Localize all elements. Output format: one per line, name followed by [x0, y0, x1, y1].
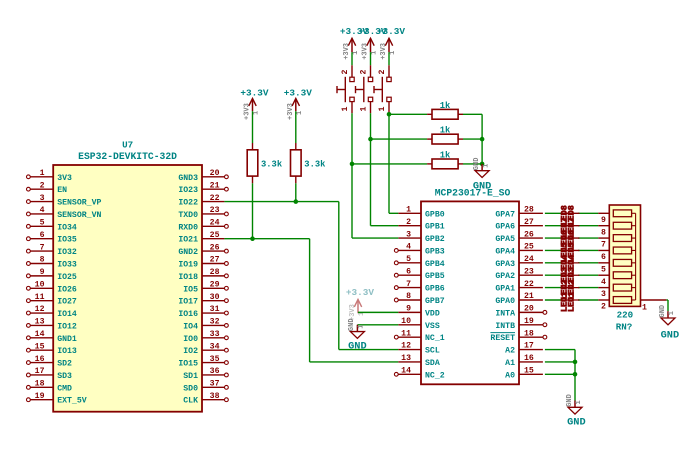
svg-text:+3.3V: +3.3V — [377, 26, 406, 37]
U7 pin 17 (SD3) — [27, 367, 73, 381]
svg-text:GND: GND — [661, 330, 680, 342]
U? pin 15 (A0) — [505, 367, 543, 381]
U7 pin 27 (IO19) — [178, 256, 228, 270]
wire +3.3V to resistor R? 3.3k A — [252, 111, 254, 143]
svg-text:GPA2: GPA2 — [495, 272, 515, 281]
svg-text:A1: A1 — [505, 359, 515, 368]
wire to GPB0 (horiz) — [389, 212, 398, 214]
svg-text:IO12: IO12 — [57, 322, 77, 331]
wire IO22 to SCL (horiz to U? pin12) — [339, 349, 399, 351]
svg-text:5: 5 — [40, 219, 45, 228]
svg-text:IO4: IO4 — [183, 322, 198, 331]
U? pin 8 (GPB7) — [394, 292, 444, 306]
RN? pin 2 — [598, 300, 609, 312]
IC U7 ESP32-DEVKITC-32D body — [53, 165, 202, 412]
RN? pin 9 — [598, 213, 609, 225]
ground at RN? — [659, 305, 679, 342]
svg-text:GND2: GND2 — [178, 248, 198, 257]
svg-text:IO5: IO5 — [183, 285, 198, 294]
svg-text:13: 13 — [35, 318, 45, 327]
U? pin 10 (VSS) — [398, 317, 440, 331]
wire A2/A1/A0 down — [574, 350, 576, 401]
U? pin 20 (INTA) — [495, 305, 546, 319]
U7 pin 38 (CLK) — [183, 392, 228, 406]
svg-text:RN?: RN? — [616, 321, 633, 332]
svg-text:NC_2: NC_2 — [425, 371, 445, 380]
U7 pin 32 (IO4) — [183, 318, 228, 332]
svg-text:GPB4: GPB4 — [425, 260, 445, 269]
svg-text:+3.3V: +3.3V — [240, 88, 269, 99]
reference U7 — [122, 140, 133, 151]
U7 pin 22 (IO22) — [178, 194, 224, 208]
svg-text:+3.3V: +3.3V — [346, 287, 375, 298]
junction at R? 3.3k A bottom — [250, 236, 255, 241]
svg-text:GPA7: GPA7 — [495, 210, 515, 219]
svg-text:EXT_5V: EXT_5V — [57, 397, 87, 406]
svg-text:9: 9 — [406, 305, 411, 314]
U7 pin 3 (SENSOR_VP) — [27, 194, 102, 208]
svg-text:+3V3: +3V3 — [287, 103, 295, 120]
svg-text:19: 19 — [35, 392, 45, 401]
value MCP23017-E_SO — [435, 187, 511, 198]
LEDs D1-D8 (overlapping symbols) — [559, 205, 579, 312]
svg-text:32: 32 — [210, 318, 220, 327]
U7 pin 1 (3V3) — [27, 169, 73, 183]
svg-text:1: 1 — [358, 325, 366, 329]
svg-text:15: 15 — [524, 367, 534, 376]
wire SW3 to R 1k row1 — [388, 113, 390, 114]
svg-text:14: 14 — [35, 330, 45, 339]
svg-text:IO15: IO15 — [178, 360, 198, 369]
svg-text:6: 6 — [40, 231, 45, 240]
svg-text:RESET: RESET — [490, 334, 515, 343]
svg-text:10: 10 — [35, 280, 45, 289]
junction SW1/R3 — [350, 162, 355, 167]
svg-text:1: 1 — [482, 164, 490, 168]
wire IO22 to SCL (horiz from U7 pin22) — [224, 201, 338, 203]
svg-text:+3.3V: +3.3V — [284, 88, 313, 99]
svg-text:9: 9 — [601, 216, 606, 225]
U7 pin 16 (SD2) — [27, 355, 73, 369]
svg-text:SD2: SD2 — [57, 360, 72, 369]
svg-text:IO22: IO22 — [178, 199, 198, 208]
U? pin 16 (A1) — [505, 354, 543, 368]
svg-text:3: 3 — [406, 230, 411, 239]
svg-text:IO13: IO13 — [57, 347, 77, 356]
svg-text:21: 21 — [524, 292, 534, 301]
wire to R? 1k top — [389, 113, 427, 115]
U7 pin 2 (EN) — [27, 181, 68, 195]
IC U? MCP23017 body — [421, 201, 519, 384]
wire IO21 to SDA (horiz from U7 pin25) — [224, 238, 309, 240]
junction 1k bus row3 — [480, 162, 485, 167]
svg-text:1: 1 — [352, 51, 360, 55]
RN? pin 5 — [598, 263, 609, 275]
svg-text:GND: GND — [659, 305, 667, 318]
U7 pin 18 (CMD) — [27, 380, 73, 394]
svg-text:IO16: IO16 — [178, 310, 198, 319]
svg-text:2: 2 — [360, 70, 369, 75]
wire R2 row to GPB1 (vert) — [370, 139, 372, 226]
U7 pin 6 (IO35) — [27, 231, 77, 245]
svg-text:GND1: GND1 — [57, 335, 77, 344]
svg-text:U7: U7 — [122, 140, 133, 151]
svg-text:1k: 1k — [440, 126, 451, 136]
svg-text:IO33: IO33 — [57, 260, 77, 269]
svg-text:A0: A0 — [505, 371, 515, 380]
U7 pin 19 (EXT_5V) — [27, 392, 87, 406]
svg-text:+3V3: +3V3 — [380, 43, 388, 60]
U7 pin 11 (IO27) — [27, 293, 77, 307]
svg-text:6: 6 — [601, 253, 606, 262]
svg-text:4: 4 — [406, 243, 411, 252]
svg-text:1: 1 — [296, 111, 304, 115]
U7 pin 36 (SD1) — [183, 367, 228, 381]
RN? pin 3 — [598, 288, 609, 300]
wire A2 — [545, 349, 575, 351]
svg-text:7: 7 — [601, 241, 606, 250]
svg-text:IO18: IO18 — [178, 273, 198, 282]
U7 pin 21 (IO23) — [178, 181, 228, 195]
resistor network RN? body — [609, 205, 640, 306]
wire GPA4 to LED — [545, 249, 562, 251]
U? pin 27 (GPA6) — [495, 218, 543, 232]
svg-text:27: 27 — [210, 256, 220, 265]
svg-text:26: 26 — [210, 243, 220, 252]
U? pin 11 (NC_1) — [394, 329, 444, 343]
junction 1k bus row2 — [480, 137, 485, 142]
U7 pin 23 (TXD0) — [178, 206, 228, 220]
RN? pin 8 — [598, 226, 609, 238]
wire 1k bus down — [481, 114, 483, 164]
junction A1 — [573, 360, 578, 365]
U7 pin 8 (IO33) — [27, 256, 77, 270]
svg-text:8: 8 — [601, 228, 606, 237]
wire IO21 to SDA (vert) — [309, 239, 311, 362]
U7 pin 9 (IO25) — [27, 268, 77, 282]
U7 pin 34 (IO2) — [183, 342, 228, 356]
wire GPA0 to LED — [545, 299, 562, 301]
ground below A0 — [566, 394, 586, 429]
svg-text:1: 1 — [341, 107, 350, 112]
svg-text:38: 38 — [210, 392, 220, 401]
svg-text:30: 30 — [210, 293, 220, 302]
svg-text:1k: 1k — [440, 150, 451, 160]
svg-text:GND: GND — [348, 340, 367, 352]
RN? pin 6 — [598, 250, 609, 262]
svg-text:GND: GND — [566, 394, 574, 407]
junction SW3/R1 — [387, 112, 392, 117]
svg-text:21: 21 — [210, 181, 220, 190]
svg-text:1: 1 — [575, 400, 583, 404]
svg-text:SD1: SD1 — [183, 372, 198, 381]
svg-text:VDD: VDD — [425, 309, 440, 318]
svg-text:VSS: VSS — [425, 322, 440, 331]
U? pin 7 (GPB6) — [394, 280, 444, 294]
svg-text:SENSOR_VP: SENSOR_VP — [57, 199, 101, 208]
svg-text:1: 1 — [378, 107, 387, 112]
svg-text:3: 3 — [40, 194, 45, 203]
svg-text:GPA0: GPA0 — [495, 297, 515, 306]
svg-text:18: 18 — [35, 380, 45, 389]
svg-text:GPA4: GPA4 — [495, 247, 515, 256]
U7 pin 35 (IO15) — [178, 355, 228, 369]
U7 pin 24 (RXD0) — [178, 219, 228, 233]
svg-text:IO25: IO25 — [57, 273, 77, 282]
U7 pin 29 (IO5) — [183, 280, 228, 294]
U7 pin 33 (IO0) — [183, 330, 228, 344]
svg-text:IO34: IO34 — [57, 223, 77, 232]
svg-text:SENSOR_VN: SENSOR_VN — [57, 211, 101, 220]
wire R? 3.3k B to net — [295, 183, 297, 201]
svg-text:13: 13 — [401, 354, 411, 363]
svg-text:IO26: IO26 — [57, 285, 77, 294]
resistor R? 3.3k B — [291, 143, 327, 183]
push button SW2 — [356, 65, 373, 113]
svg-text:28: 28 — [210, 268, 220, 277]
U? pin 25 (GPA4) — [495, 243, 543, 257]
wire R? 1k middle right — [463, 138, 482, 140]
svg-text:CMD: CMD — [57, 384, 72, 393]
wire SW1 down — [351, 113, 353, 164]
svg-text:16: 16 — [35, 355, 45, 364]
wire LED to RN pin 8 — [578, 225, 598, 227]
value 220 — [617, 310, 634, 321]
wire GPA6 to LED — [545, 225, 562, 227]
U7 pin 31 (IO16) — [178, 305, 228, 319]
power +3.3V above R? 3.3k A — [240, 88, 269, 121]
svg-text:15: 15 — [35, 342, 45, 351]
wire A0 — [545, 373, 575, 375]
U? pin 14 (NC_2) — [394, 367, 444, 381]
resistor R? 3.3k A — [247, 143, 283, 183]
wire GPA7 to LED — [545, 212, 562, 214]
svg-text:IO17: IO17 — [178, 298, 198, 307]
U7 pin 10 (IO26) — [27, 280, 77, 294]
wire to GPB1 (horiz) — [371, 225, 399, 227]
svg-text:1: 1 — [406, 206, 411, 215]
wire A1 — [545, 361, 575, 363]
svg-text:NC_1: NC_1 — [425, 334, 445, 343]
U? pin 6 (GPB5) — [394, 267, 444, 281]
wire GPA2 to LED — [545, 274, 562, 276]
svg-text:2: 2 — [40, 181, 45, 190]
svg-text:IO23: IO23 — [178, 186, 198, 195]
svg-text:IO35: IO35 — [57, 236, 77, 245]
U? pin 23 (GPA2) — [495, 267, 543, 281]
U? pin 13 (SDA) — [398, 354, 440, 368]
svg-text:SD3: SD3 — [57, 372, 72, 381]
U? pin 12 (SCL) — [398, 342, 440, 356]
wire R? 1k bottom right — [463, 163, 482, 165]
ground below 1k bus — [473, 158, 492, 193]
svg-text:+3V3: +3V3 — [343, 43, 351, 60]
svg-text:34: 34 — [210, 342, 220, 351]
svg-text:5: 5 — [601, 265, 606, 274]
svg-text:RXD0: RXD0 — [178, 223, 198, 232]
wire LED to RN pin 5 — [578, 262, 598, 264]
svg-text:35: 35 — [210, 355, 220, 364]
svg-text:2: 2 — [341, 70, 350, 75]
svg-text:3V3: 3V3 — [57, 174, 72, 183]
power +3.3V above SW3 — [377, 26, 406, 60]
U? pin 21 (GPA0) — [495, 292, 543, 306]
svg-text:1: 1 — [668, 311, 676, 315]
U? pin 4 (GPB3) — [394, 243, 444, 257]
svg-text:2: 2 — [601, 303, 606, 312]
svg-text:INTA: INTA — [495, 309, 515, 318]
wire IO21 to SDA (horiz to U? pin13) — [310, 361, 399, 363]
svg-text:GPB6: GPB6 — [425, 285, 445, 294]
U7 pin 26 (GND2) — [178, 243, 228, 257]
svg-text:IO19: IO19 — [178, 260, 198, 269]
svg-text:12: 12 — [35, 305, 45, 314]
svg-text:18: 18 — [524, 329, 534, 338]
svg-text:14: 14 — [401, 367, 411, 376]
svg-text:SCL: SCL — [425, 347, 440, 356]
svg-text:3: 3 — [601, 290, 606, 299]
svg-text:17: 17 — [35, 367, 45, 376]
U7 pin 28 (IO18) — [178, 268, 228, 282]
svg-text:27: 27 — [524, 218, 534, 227]
svg-text:CLK: CLK — [183, 397, 198, 406]
svg-text:8: 8 — [40, 256, 45, 265]
U7 pin 14 (GND1) — [27, 330, 77, 344]
svg-text:29: 29 — [210, 280, 220, 289]
svg-text:1: 1 — [360, 107, 369, 112]
svg-text:1: 1 — [371, 51, 379, 55]
wire to GPB2 (horiz) — [352, 237, 398, 239]
U? pin 22 (GPA1) — [495, 280, 543, 294]
svg-text:IO2: IO2 — [183, 347, 198, 356]
wire R3 row to GPB2 (vert) — [351, 164, 353, 238]
svg-text:26: 26 — [524, 230, 534, 239]
svg-text:IO32: IO32 — [57, 248, 77, 257]
svg-text:IO27: IO27 — [57, 298, 77, 307]
svg-text:20: 20 — [524, 305, 534, 314]
svg-text:8: 8 — [406, 292, 411, 301]
svg-text:16: 16 — [524, 354, 534, 363]
wire R? 3.3k A to net — [252, 183, 254, 238]
wire SW2 down — [370, 113, 372, 139]
svg-text:19: 19 — [524, 317, 534, 326]
svg-text:GPB7: GPB7 — [425, 297, 445, 306]
svg-text:LED1: LED1 — [566, 292, 576, 312]
U? pin 24 (GPA3) — [495, 255, 543, 269]
svg-text:22: 22 — [524, 280, 534, 289]
wire LED to RN pin 3 — [578, 287, 598, 289]
svg-text:3.3k: 3.3k — [261, 160, 283, 170]
svg-text:3.3k: 3.3k — [304, 160, 326, 170]
junction SW2/R2 — [368, 137, 373, 142]
power +3.3V at VDD (pale) — [346, 287, 375, 321]
svg-text:+3V3: +3V3 — [244, 103, 252, 120]
svg-text:1k: 1k — [440, 101, 451, 111]
svg-text:GPA5: GPA5 — [495, 235, 515, 244]
wire IO22 to SCL (vert) — [338, 202, 340, 350]
U7 pin 25 (IO21) — [178, 231, 224, 245]
resistor R? 1k middle — [427, 126, 463, 144]
svg-text:25: 25 — [210, 231, 220, 240]
svg-text:12: 12 — [401, 342, 411, 351]
svg-text:GPB2: GPB2 — [425, 235, 445, 244]
svg-text:20: 20 — [210, 169, 220, 178]
U? pin 26 (GPA5) — [495, 230, 543, 244]
svg-text:11: 11 — [401, 329, 411, 338]
wire GPA1 to LED — [545, 287, 562, 289]
svg-text:4: 4 — [601, 278, 606, 287]
resistor R? 1k bottom — [427, 150, 463, 168]
wire to R? 1k bottom — [352, 163, 427, 165]
wire +3.3V to SW3 — [388, 52, 390, 65]
RN? pin 7 — [598, 238, 609, 250]
U7 pin 30 (IO17) — [178, 293, 228, 307]
RN? pin 1 — [641, 300, 667, 313]
U? pin 28 (GPA7) — [495, 206, 543, 220]
svg-text:IO0: IO0 — [183, 335, 198, 344]
wire +3.3V to SW1 — [351, 52, 353, 65]
svg-text:17: 17 — [524, 342, 534, 351]
svg-text:A2: A2 — [505, 347, 515, 356]
U7 pin 20 (GND3) — [178, 169, 228, 183]
svg-text:ESP32-DEVKITC-32D: ESP32-DEVKITC-32D — [78, 151, 177, 162]
wire R? 1k top right — [463, 113, 482, 115]
svg-text:GND3: GND3 — [178, 174, 198, 183]
svg-text:9: 9 — [40, 268, 45, 277]
wire LED to RN pin 7 — [578, 237, 598, 239]
push button SW3 — [374, 65, 391, 113]
svg-text:1: 1 — [642, 304, 647, 313]
svg-text:GND: GND — [473, 180, 492, 192]
U7 pin 7 (IO32) — [27, 243, 77, 257]
wire LED to RN pin 6 — [578, 249, 598, 251]
svg-text:GND: GND — [567, 417, 586, 429]
svg-text:1: 1 — [40, 169, 45, 178]
svg-text:GPB0: GPB0 — [425, 210, 445, 219]
wire +3.3V to resistor R? 3.3k B — [295, 111, 297, 143]
svg-text:10: 10 — [401, 317, 411, 326]
svg-text:220: 220 — [617, 310, 634, 321]
wire VDD — [358, 311, 398, 313]
svg-text:+3V3: +3V3 — [362, 43, 370, 60]
svg-text:33: 33 — [210, 330, 220, 339]
wire LED to RN pin 4 — [578, 274, 598, 276]
power +3.3V above R? 3.3k B — [284, 88, 313, 121]
U? pin 5 (GPB4) — [394, 255, 444, 269]
svg-text:GPA3: GPA3 — [495, 260, 515, 269]
svg-text:1: 1 — [389, 51, 397, 55]
power +3.3V above SW2 — [358, 26, 387, 60]
svg-text:GPB3: GPB3 — [425, 247, 445, 256]
svg-text:11: 11 — [35, 293, 45, 302]
U7 pin 4 (SENSOR_VN) — [27, 206, 102, 220]
wire +3.3V to SW2 — [370, 52, 372, 65]
svg-text:7: 7 — [40, 243, 45, 252]
svg-text:1: 1 — [253, 111, 261, 115]
U7 pin 5 (IO34) — [27, 219, 77, 233]
svg-text:IO14: IO14 — [57, 310, 77, 319]
svg-text:28: 28 — [524, 206, 534, 215]
U? pin 3 (GPB2) — [398, 230, 444, 244]
svg-text:GPB5: GPB5 — [425, 272, 445, 281]
svg-text:GND: GND — [473, 158, 481, 171]
svg-text:GPB1: GPB1 — [425, 223, 445, 232]
push button SW1 — [337, 65, 354, 113]
svg-text:SD0: SD0 — [183, 384, 198, 393]
RN? internal resistors — [613, 210, 635, 303]
U? pin 18 (RESET) — [490, 329, 546, 343]
svg-text:6: 6 — [406, 267, 411, 276]
